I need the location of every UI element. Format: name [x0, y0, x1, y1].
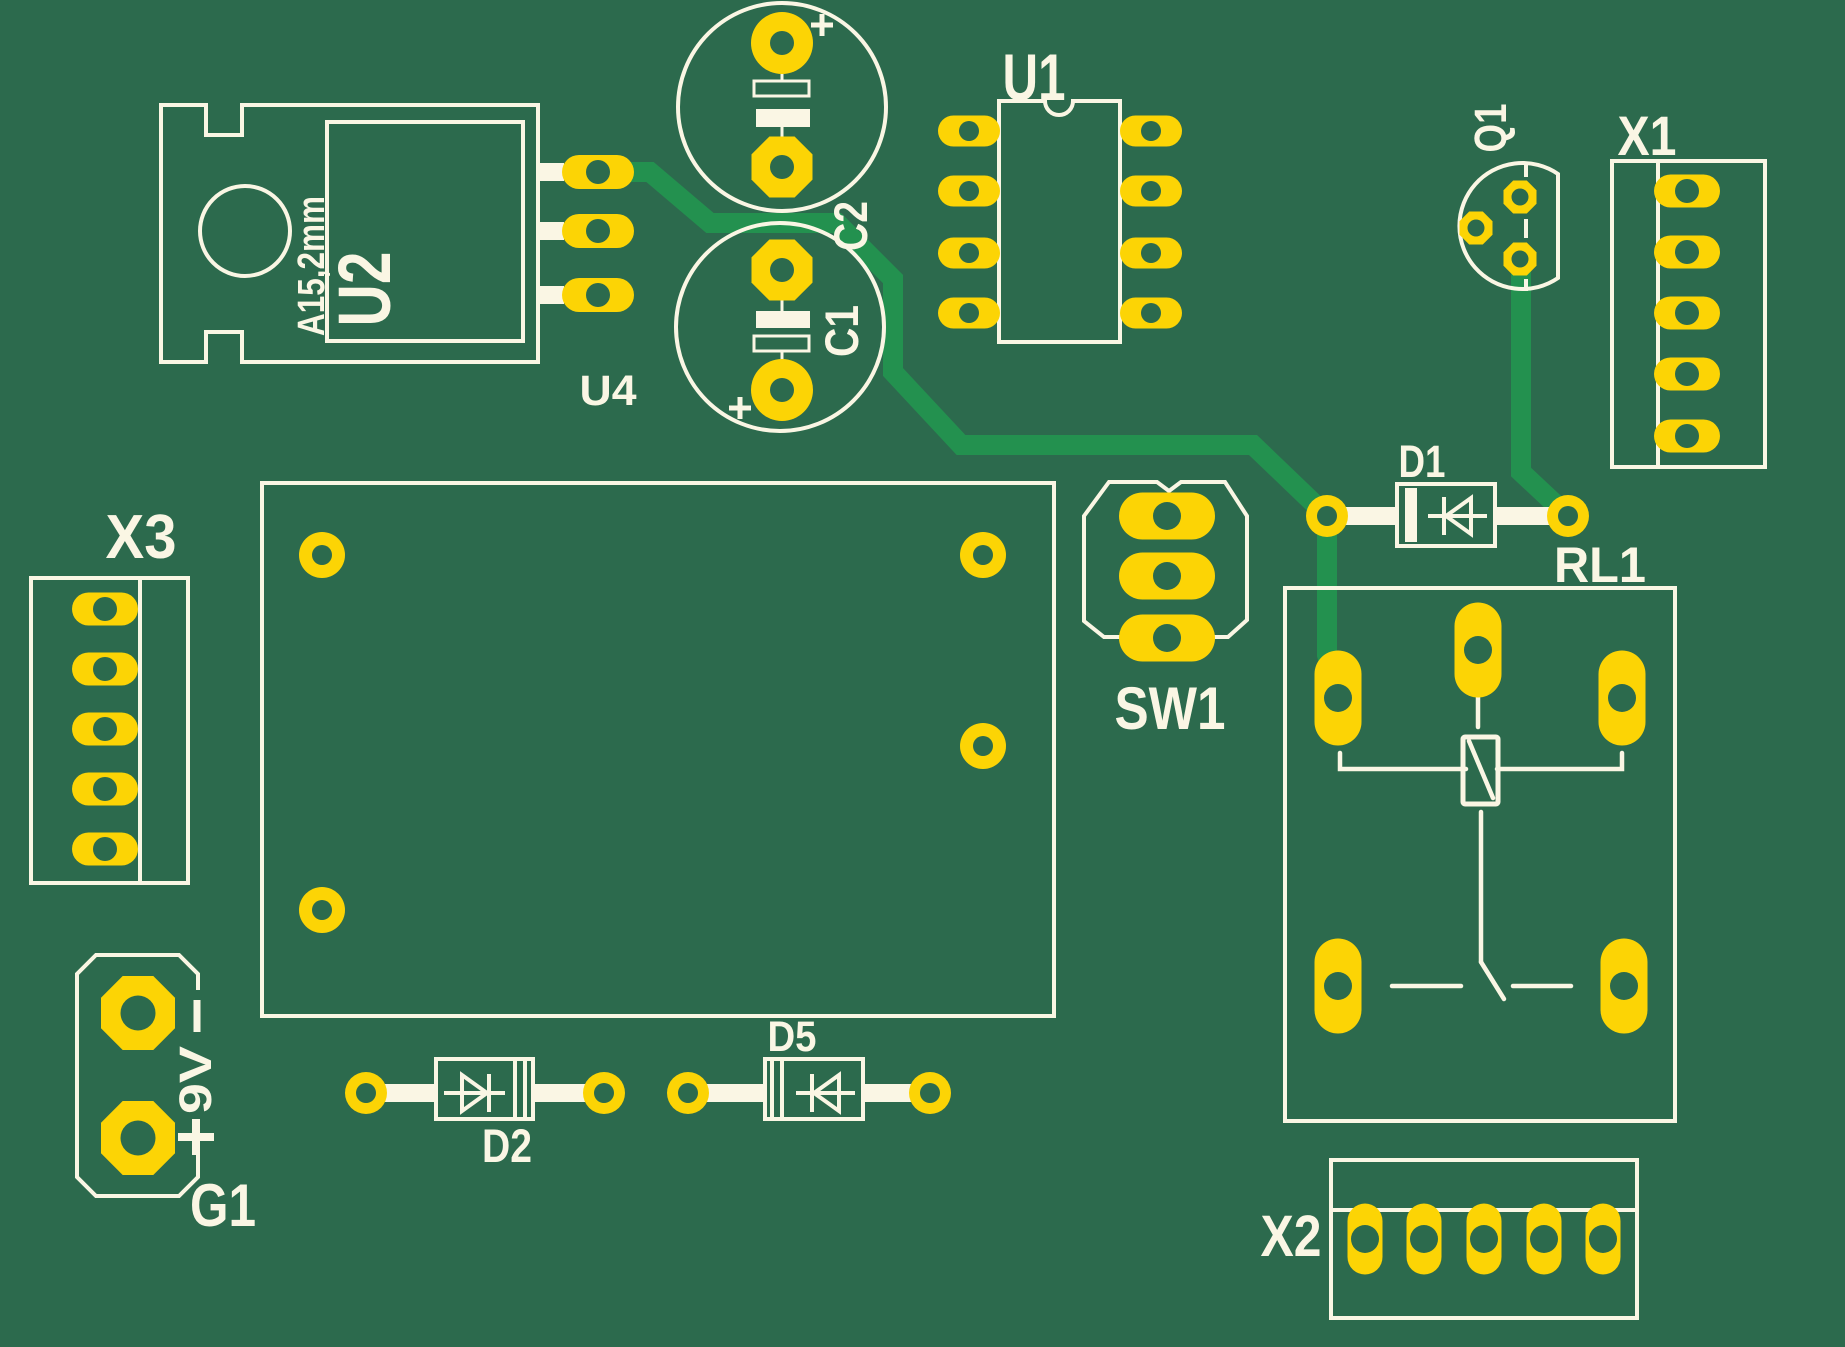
svg-text:D2: D2	[482, 1119, 532, 1172]
C1 body link line top	[781, 300, 784, 311]
RL1 coil left arm	[1340, 753, 1466, 769]
X3 pad 4	[72, 773, 138, 806]
relay RL1 outline	[1285, 588, 1675, 1121]
C2 body link line bottom	[781, 127, 784, 137]
Q1 pad 3	[1504, 243, 1537, 276]
RL1 coil diagonal	[1469, 741, 1493, 798]
wire net2: Q1 pin3 to D1 cathode	[1521, 258, 1568, 516]
D5 cathode band	[772, 1061, 782, 1117]
X1 pad 1	[1654, 175, 1720, 208]
diode D1 lead left	[1330, 507, 1397, 525]
D2 lead right	[533, 1084, 600, 1102]
D1 pad cathode	[1547, 495, 1589, 537]
svg-text:RL1: RL1	[1554, 537, 1646, 593]
svg-text:SW1: SW1	[1115, 675, 1226, 742]
D1 diode symbol	[1428, 497, 1487, 535]
RL1 pad coil+	[1455, 603, 1502, 698]
X1 pad 2	[1654, 236, 1720, 269]
C1 body link line bottom	[781, 351, 784, 360]
D2 cathode band	[515, 1061, 525, 1117]
U1 pad 2	[938, 176, 1000, 207]
U1 pad 4	[938, 298, 1000, 329]
X2 inner line	[1331, 1208, 1637, 1212]
C2 body link line top	[781, 74, 784, 82]
svg-text:X2: X2	[1261, 1204, 1322, 1269]
D5 lead right	[863, 1084, 926, 1102]
RL1 switch lever	[1481, 962, 1504, 999]
U2 lead stub pin 2	[538, 222, 564, 240]
D1 body	[1397, 484, 1495, 546]
SW1 pad 1	[1119, 493, 1215, 540]
D5 pad anode	[667, 1072, 709, 1114]
G1 minus mark	[194, 1000, 201, 1032]
RL1 contact left	[1392, 984, 1461, 989]
X2 pad 3	[1467, 1204, 1502, 1275]
U1 pad 7	[1120, 176, 1182, 207]
Q1 pad 1	[1504, 181, 1537, 214]
IC U1 body outline with pin1 notch	[999, 101, 1120, 342]
U1 pad 8	[1120, 116, 1182, 147]
U1 pad 5	[1120, 298, 1182, 329]
module pad bottom-left	[299, 887, 345, 933]
C1 plate outline rect	[754, 336, 809, 351]
D5 diode symbol	[796, 1074, 855, 1112]
RL1 coil link from pad	[1476, 697, 1481, 727]
X1 pad 3	[1654, 297, 1720, 330]
U2 mounting hole	[200, 186, 290, 276]
svg-text:U2: U2	[323, 252, 406, 327]
D1 cathode band	[1405, 488, 1417, 542]
C2 plate outline rect	[754, 81, 809, 96]
C1 pad + (round)	[751, 359, 813, 421]
RL1 pad coil right	[1599, 651, 1646, 746]
svg-text:U4: U4	[580, 367, 637, 415]
X3 pad 5	[72, 833, 138, 866]
capacitor C1 outline circle	[676, 223, 884, 431]
D5 pad cathode	[909, 1072, 951, 1114]
SW1 pad 2	[1119, 553, 1215, 600]
D2 pad cathode	[583, 1072, 625, 1114]
svg-text:U1: U1	[1003, 40, 1066, 114]
RL1 coil right arm	[1497, 753, 1622, 769]
connector X2 outline	[1331, 1160, 1637, 1318]
U2 pad 3	[562, 278, 634, 312]
U2 body	[327, 122, 523, 341]
svg-text:C2: C2	[824, 201, 877, 251]
X3 inner line	[138, 578, 142, 883]
svg-text:9V: 9V	[170, 1046, 221, 1114]
C1 pad - (octagon)	[752, 240, 813, 301]
RL1 pad NO	[1601, 939, 1648, 1034]
module pad top-right	[960, 532, 1006, 578]
C2 plate filled rect	[756, 109, 810, 127]
SW1 pad 3	[1119, 615, 1215, 662]
diode D5 lead left	[692, 1084, 765, 1102]
D5 body	[765, 1059, 863, 1119]
G1 pad -	[101, 976, 175, 1050]
diode D2 lead left	[370, 1084, 436, 1102]
svg-text:X1: X1	[1618, 104, 1677, 167]
capacitor C2 outline circle	[678, 3, 886, 211]
U1 pad 3	[938, 238, 1000, 269]
svg-text:D1: D1	[1399, 436, 1446, 487]
D1 lead right	[1495, 507, 1560, 525]
wire net1: D1 anode down to RL1 coil pad	[1327, 516, 1338, 693]
module board outline	[262, 483, 1054, 1016]
D2 diode symbol	[444, 1074, 505, 1112]
U2 lead stub pin 3	[538, 286, 564, 304]
U1 pad 6	[1120, 238, 1182, 269]
battery G1 outline	[77, 955, 198, 1196]
RL1 pad coil left	[1315, 651, 1362, 746]
module pad top-left	[299, 532, 345, 578]
RL1 common stem	[1479, 812, 1484, 962]
svg-text:Q1: Q1	[1465, 104, 1516, 153]
U2 lead stub pin 1	[538, 163, 564, 181]
X1 pad 4	[1654, 358, 1720, 391]
X3 pad 1	[72, 593, 138, 626]
svg-text:D5: D5	[768, 1013, 817, 1061]
D2 body	[436, 1059, 533, 1119]
D2 pad anode	[345, 1072, 387, 1114]
RL1 pad NC	[1315, 939, 1362, 1034]
U2 pad 1	[562, 155, 634, 189]
X2 pad 1	[1348, 1204, 1383, 1275]
C1 plus mark	[729, 397, 751, 419]
U1 pad 1	[938, 116, 1000, 147]
X2 pad 4	[1527, 1204, 1562, 1275]
G1 plus mark	[178, 1119, 214, 1155]
X2 pad 5	[1586, 1204, 1621, 1275]
C2 plus mark	[811, 14, 833, 36]
X1 pad 5	[1654, 420, 1720, 453]
X3 pad 3	[72, 713, 138, 746]
C2 pad + (round)	[751, 12, 813, 74]
wire net1: U2 pin1 to D1 anode	[598, 172, 1327, 516]
D1 pad anode	[1306, 495, 1348, 537]
X3 pad 2	[72, 653, 138, 686]
connector X1 outline	[1612, 161, 1765, 467]
RL1 contact right	[1513, 984, 1571, 989]
U2 pad 2	[562, 214, 634, 248]
Q1 symbol line dashes	[1524, 164, 1528, 291]
X1 inner line	[1656, 161, 1660, 467]
svg-text:G1: G1	[190, 1172, 256, 1239]
Q1 pad 2	[1460, 212, 1493, 245]
switch SW1 outline	[1084, 482, 1247, 637]
RL1 coil rect	[1463, 737, 1498, 804]
svg-text:X3: X3	[106, 503, 177, 572]
C2 pad - (octagon)	[752, 137, 813, 198]
voltage regulator U2 outline	[161, 105, 538, 362]
transistor Q1 TO-92 outline	[1459, 163, 1558, 289]
G1 pad +	[101, 1101, 175, 1175]
C1 plate filled rect	[756, 311, 810, 328]
svg-text:C1: C1	[815, 305, 868, 357]
X2 pad 2	[1407, 1204, 1442, 1275]
connector X3 outline	[31, 578, 188, 883]
module pad mid-right	[960, 723, 1006, 769]
